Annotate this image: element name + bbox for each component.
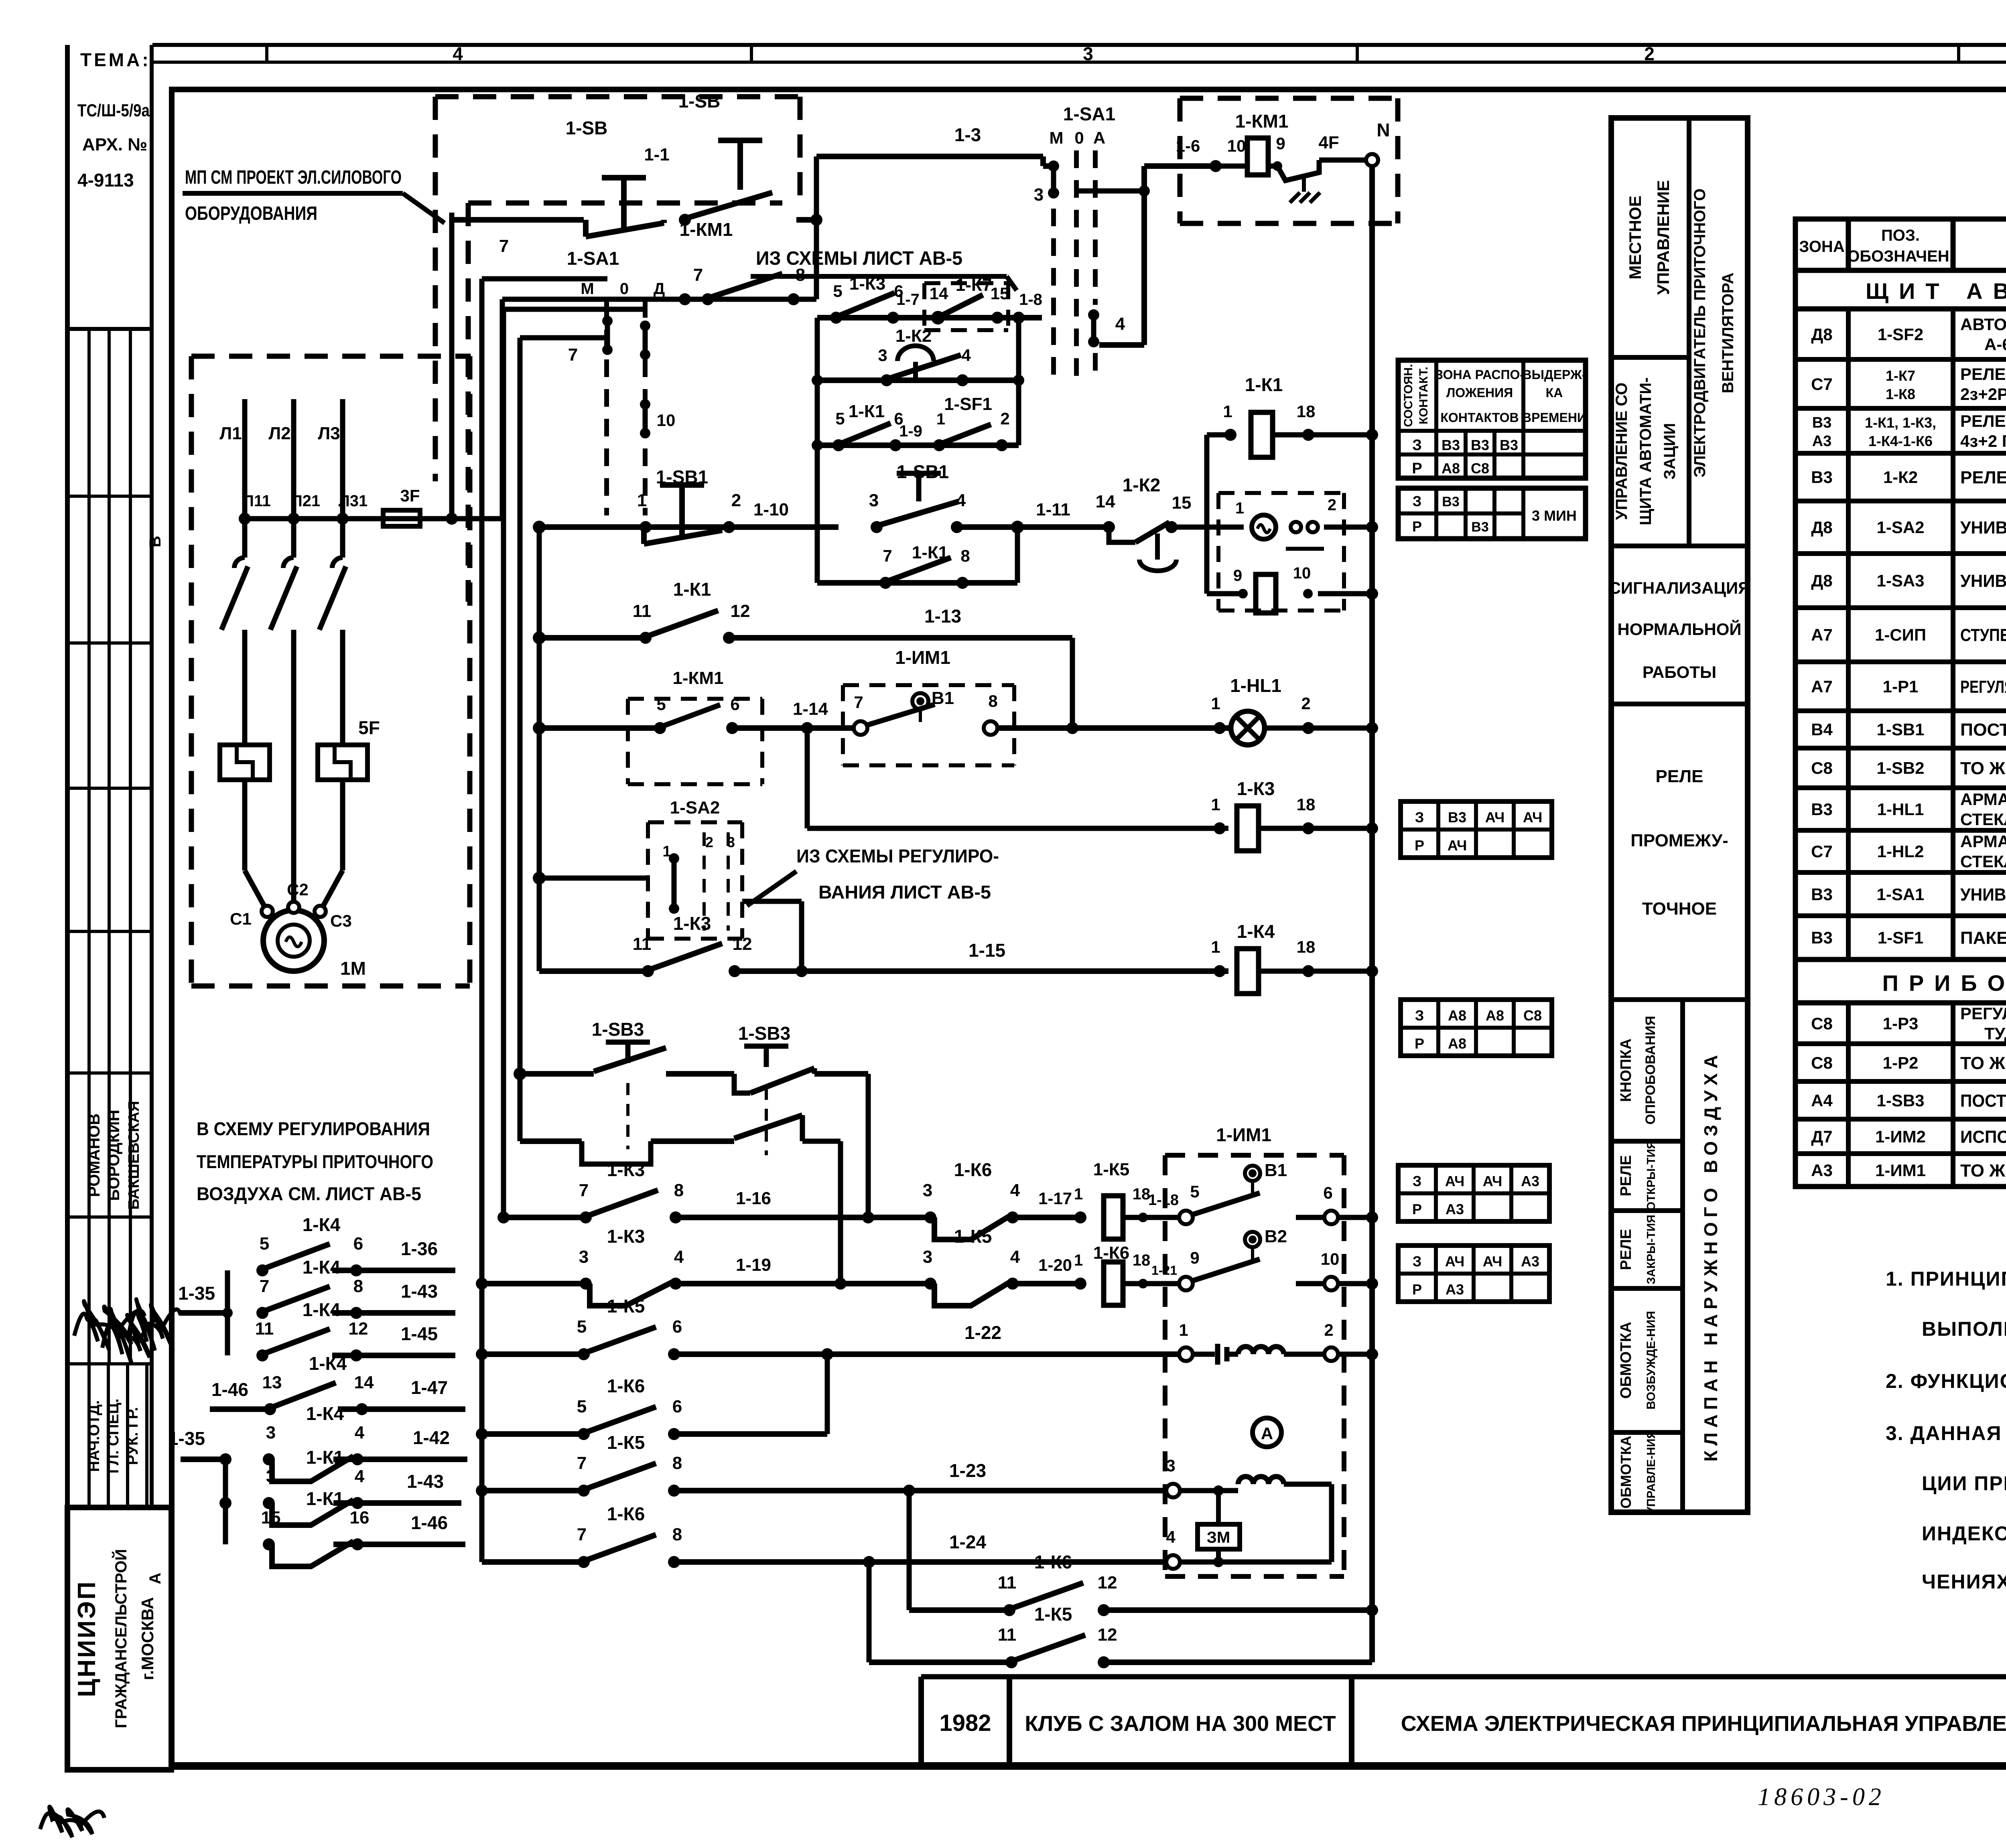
svg-text:7: 7 — [577, 1453, 587, 1473]
svg-text:Р: Р — [1412, 1281, 1422, 1298]
svg-text:АРМАТУРА СИГНАЛЬНОЙ ЛАМПЫ С КР: АРМАТУРА СИГНАЛЬНОЙ ЛАМПЫ С КРАСНЫМ — [1960, 832, 2006, 851]
svg-text:1-SА2: 1-SА2 — [1876, 518, 1924, 537]
svg-text:В3: В3 — [1442, 494, 1459, 509]
svg-text:Р: Р — [1412, 460, 1422, 477]
svg-text:12: 12 — [1098, 1573, 1117, 1592]
svg-text:10: 10 — [1227, 136, 1246, 155]
svg-text:ИЗ СХЕМЫ ЛИСТ АВ-5: ИЗ СХЕМЫ ЛИСТ АВ-5 — [756, 248, 962, 269]
svg-text:1: 1 — [1223, 402, 1232, 421]
svg-text:ВОЗДУХА СМ. ЛИСТ АВ-5: ВОЗДУХА СМ. ЛИСТ АВ-5 — [197, 1183, 421, 1204]
svg-text:КНОПКА: КНОПКА — [1618, 1039, 1634, 1102]
svg-text:З: З — [1413, 1253, 1422, 1270]
svg-text:1-SВ: 1-SВ — [566, 118, 608, 138]
svg-text:С7: С7 — [1811, 842, 1833, 861]
svg-text:11: 11 — [998, 1625, 1017, 1645]
svg-text:АЧ: АЧ — [1448, 837, 1467, 854]
svg-text:1-16: 1-16 — [736, 1189, 771, 1208]
svg-text:КЛУБ С ЗАЛОМ НА 300 МЕСТ: КЛУБ С ЗАЛОМ НА 300 МЕСТ — [1025, 1712, 1336, 1736]
svg-text:1-К7: 1-К7 — [1886, 367, 1915, 384]
svg-text:1982: 1982 — [939, 1710, 991, 1736]
svg-text:1-КМ1: 1-КМ1 — [680, 219, 733, 240]
svg-text:М: М — [581, 280, 594, 298]
svg-text:1. ПРИНЦИПИАЛЬНАЯ ЭЛЕКТРИЧЕСК: 1. ПРИНЦИПИАЛЬНАЯ ЭЛЕКТРИЧЕСКАЯ СХЕМА — [1886, 1268, 2006, 1290]
svg-text:12: 12 — [1098, 1625, 1117, 1645]
svg-text:ОБОЗНАЧЕН.: ОБОЗНАЧЕН. — [1847, 247, 1954, 265]
svg-text:9: 9 — [1190, 1248, 1199, 1267]
svg-text:4: 4 — [961, 346, 971, 365]
svg-text:1-SF2: 1-SF2 — [1878, 325, 1923, 344]
svg-text:3: 3 — [579, 1247, 589, 1267]
svg-text:1: 1 — [1211, 937, 1220, 956]
svg-text:В2: В2 — [1265, 1227, 1287, 1246]
svg-text:В3: В3 — [1812, 414, 1832, 431]
svg-text:10: 10 — [1321, 1250, 1340, 1268]
svg-text:А7: А7 — [1811, 625, 1833, 644]
svg-text:АЧ: АЧ — [1485, 809, 1505, 826]
svg-text:В3: В3 — [1811, 885, 1833, 904]
svg-text:1-42: 1-42 — [413, 1427, 450, 1448]
svg-text:Р: Р — [1412, 518, 1422, 535]
svg-text:1-К1: 1-К1 — [912, 543, 948, 562]
svg-text:3: 3 — [727, 834, 735, 850]
svg-text:СИГНАЛИЗАЦИЯ: СИГНАЛИЗАЦИЯ — [1609, 578, 1750, 597]
svg-text:ЗАЦИИ: ЗАЦИИ — [1661, 423, 1679, 480]
svg-text:1-24: 1-24 — [949, 1532, 986, 1552]
svg-text:18603-02: 18603-02 — [1758, 1783, 1885, 1811]
svg-text:8: 8 — [960, 546, 970, 565]
svg-text:Л31: Л31 — [339, 492, 368, 510]
svg-text:Д8: Д8 — [1811, 325, 1832, 344]
svg-text:18: 18 — [1297, 402, 1316, 421]
svg-text:1-SF1: 1-SF1 — [1878, 928, 1923, 947]
svg-text:РЕЛЕ ВРЕМЕНИ ВС-10-33: РЕЛЕ ВРЕМЕНИ ВС-10-33 — [1960, 468, 2006, 487]
svg-text:1-К1: 1-К1 — [673, 579, 711, 600]
svg-text:1-SА1: 1-SА1 — [1876, 885, 1924, 904]
svg-text:ИЗ СХЕМЫ РЕГУЛИРО-: ИЗ СХЕМЫ РЕГУЛИРО- — [796, 846, 999, 866]
svg-text:1-Р2: 1-Р2 — [1883, 1053, 1919, 1072]
svg-text:14: 14 — [930, 284, 948, 303]
svg-text:6: 6 — [672, 1397, 682, 1416]
svg-text:1-SВ1: 1-SВ1 — [897, 461, 949, 482]
svg-text:ТУДЭ-4 0-250°С: ТУДЭ-4 0-250°С — [1984, 1024, 2006, 1043]
svg-text:1-НL1: 1-НL1 — [1230, 675, 1281, 696]
svg-text:4: 4 — [1166, 1527, 1176, 1546]
svg-text:г.МОСКВА: г.МОСКВА — [138, 1597, 157, 1680]
svg-text:ЩИТА АВТОМАТИ-: ЩИТА АВТОМАТИ- — [1637, 377, 1655, 525]
svg-text:В3: В3 — [1471, 437, 1489, 453]
svg-text:РЕЛЕ ПРОМЕЖУТОЧНОЕ ~220 В: РЕЛЕ ПРОМЕЖУТОЧНОЕ ~220 В — [1960, 412, 2006, 430]
svg-text:2: 2 — [1324, 1321, 1333, 1339]
svg-text:1-К4: 1-К4 — [303, 1299, 341, 1320]
svg-text:Д8: Д8 — [1811, 518, 1832, 537]
svg-text:АВТОМАТИЧЕСКИЙ ВЫКЛЮЧАТЕЛЬ: АВТОМАТИЧЕСКИЙ ВЫКЛЮЧАТЕЛЬ — [1960, 314, 2006, 334]
svg-text:1-47: 1-47 — [411, 1377, 448, 1398]
svg-text:11: 11 — [998, 1573, 1017, 1592]
svg-text:7: 7 — [568, 345, 578, 365]
svg-text:Л21: Л21 — [291, 492, 321, 510]
svg-text:4: 4 — [355, 1423, 365, 1442]
svg-text:ПРОМЕЖУ-: ПРОМЕЖУ- — [1630, 831, 1728, 850]
svg-text:1-К4-1-К6: 1-К4-1-К6 — [1868, 433, 1933, 449]
svg-text:1-11: 1-11 — [1036, 500, 1070, 519]
svg-text:7: 7 — [883, 546, 892, 565]
svg-text:С8: С8 — [1523, 1007, 1542, 1024]
svg-text:1-К6: 1-К6 — [607, 1375, 645, 1396]
svg-text:ИНДЕКСА В МАРКИРОВКЕ ПРОВОД: ИНДЕКСА В МАРКИРОВКЕ ПРОВОДОВ И В ОБОЗНА… — [1922, 1522, 2006, 1545]
svg-text:2: 2 — [1328, 496, 1336, 514]
svg-text:А4: А4 — [1811, 1091, 1833, 1110]
svg-text:С3: С3 — [330, 911, 352, 930]
svg-text:1-К6: 1-К6 — [954, 1159, 992, 1180]
svg-text:8: 8 — [672, 1453, 682, 1473]
svg-text:1: 1 — [1074, 1252, 1083, 1269]
svg-text:2з+2Р КОНТАКТА ПЭ-21-8УЗ: 2з+2Р КОНТАКТА ПЭ-21-8УЗ — [1960, 385, 2006, 404]
svg-text:1-К1, 1-К3,: 1-К1, 1-К3, — [1865, 414, 1936, 431]
svg-text:ОБМОТКА: ОБМОТКА — [1618, 1436, 1634, 1509]
svg-text:ВЕНТИЛЯТОРА: ВЕНТИЛЯТОРА — [1719, 272, 1737, 393]
svg-text:В3: В3 — [1811, 800, 1833, 819]
svg-text:3: 3 — [266, 1423, 276, 1442]
svg-text:8: 8 — [353, 1276, 363, 1296]
svg-text:1-ИМ1: 1-ИМ1 — [895, 647, 950, 668]
svg-text:3: 3 — [878, 346, 887, 365]
svg-text:СХЕМА ЭЛЕКТРИЧЕСКАЯ ПРИНЦИПИА: СХЕМА ЭЛЕКТРИЧЕСКАЯ ПРИНЦИПИАЛЬНАЯ УПРАВ… — [1401, 1712, 2006, 1736]
svg-text:3: 3 — [1083, 43, 1093, 64]
svg-text:5: 5 — [577, 1317, 587, 1337]
svg-text:АЧ: АЧ — [1483, 1173, 1502, 1189]
svg-text:УПРАВЛЕНИЕ: УПРАВЛЕНИЕ — [1654, 180, 1673, 295]
svg-text:1-46: 1-46 — [411, 1512, 448, 1533]
svg-text:1-ИМ1: 1-ИМ1 — [1216, 1124, 1271, 1145]
svg-text:Л1: Л1 — [219, 424, 242, 443]
svg-text:5: 5 — [656, 695, 666, 714]
svg-text:5: 5 — [577, 1397, 587, 1416]
svg-text:13: 13 — [262, 1373, 282, 1392]
svg-text:1-15: 1-15 — [968, 940, 1005, 961]
svg-text:МП СМ ПРОЕКТ ЭЛ.СИЛОВОГО: МП СМ ПРОЕКТ ЭЛ.СИЛОВОГО — [185, 167, 402, 188]
svg-text:7: 7 — [854, 693, 863, 712]
svg-text:ТЕМА:: ТЕМА: — [80, 49, 151, 70]
svg-text:18: 18 — [1133, 1185, 1151, 1203]
svg-text:1: 1 — [1211, 795, 1220, 814]
svg-text:ВРЕМЕНИ: ВРЕМЕНИ — [1522, 410, 1586, 425]
svg-text:1-К4: 1-К4 — [303, 1257, 341, 1278]
svg-text:5: 5 — [260, 1234, 269, 1254]
svg-text:1-СИП: 1-СИП — [1875, 625, 1926, 644]
svg-text:1-К4: 1-К4 — [1237, 921, 1275, 942]
svg-text:А7: А7 — [1811, 677, 1833, 696]
svg-text:ЦНИИЭП: ЦНИИЭП — [73, 1580, 101, 1697]
svg-text:А3: А3 — [1446, 1201, 1464, 1217]
svg-text:УНИВЕРСАЛЬНЫЙ ПЕРЕКЛЮЧАТЕЛЬ: УНИВЕРСАЛЬНЫЙ ПЕРЕКЛЮЧАТЕЛЬ УП 5313 / С3… — [1960, 884, 2006, 905]
svg-text:6: 6 — [672, 1317, 682, 1337]
svg-text:1-9: 1-9 — [899, 422, 922, 440]
svg-text:РЕГУЛЯТОР ТЕМПЕРАТУРЫ ПОЛУПРОВ: РЕГУЛЯТОР ТЕМПЕРАТУРЫ ПОЛУПРОВОДНИКОВЫЙ … — [1960, 676, 2006, 697]
svg-text:ГЛ. СПЕЦ.: ГЛ. СПЕЦ. — [105, 1399, 122, 1474]
svg-text:В3: В3 — [1448, 809, 1466, 826]
svg-text:ЗОНА: ЗОНА — [1799, 238, 1844, 256]
svg-text:1-43: 1-43 — [401, 1281, 438, 1302]
svg-text:УНИВЕРСАЛЬНЫЙ ПЕРЕКЛЮЧАТЕЛЬ: УНИВЕРСАЛЬНЫЙ ПЕРЕКЛЮЧАТЕЛЬ УП5311-С225 — [1960, 517, 2006, 538]
svg-text:С8: С8 — [1811, 1053, 1833, 1072]
svg-text:3F: 3F — [400, 486, 420, 505]
svg-text:РОМАНОВ: РОМАНОВ — [85, 1114, 103, 1197]
svg-text:ГРАЖДАНСЕЛЬСТРОЙ: ГРАЖДАНСЕЛЬСТРОЙ — [112, 1549, 130, 1728]
svg-text:Л2: Л2 — [268, 424, 290, 443]
svg-text:НАЧ.ОТД.: НАЧ.ОТД. — [86, 1400, 103, 1472]
svg-text:ЭЛЕКТРОДВИГАТЕЛЬ ПРИТОЧНОГО: ЭЛЕКТРОДВИГАТЕЛЬ ПРИТОЧНОГО — [1691, 189, 1709, 478]
svg-text:1-К6: 1-К6 — [1034, 1552, 1072, 1572]
svg-text:В3: В3 — [1442, 437, 1460, 453]
svg-text:6: 6 — [353, 1234, 363, 1254]
svg-text:1-К3: 1-К3 — [607, 1159, 645, 1180]
svg-text:1-К4: 1-К4 — [306, 1403, 344, 1424]
svg-text:1-К2: 1-К2 — [1883, 468, 1918, 487]
svg-text:1-К5: 1-К5 — [1093, 1160, 1129, 1179]
svg-text:1-3: 1-3 — [954, 124, 981, 145]
svg-text:В СХЕМУ РЕГУЛИРОВАНИЯ: В СХЕМУ РЕГУЛИРОВАНИЯ — [197, 1118, 430, 1139]
svg-text:1-20: 1-20 — [1038, 1256, 1072, 1274]
svg-text:Р: Р — [1412, 1201, 1422, 1217]
svg-text:1-К1: 1-К1 — [306, 1447, 344, 1468]
svg-text:НОРМАЛЬНОЙ: НОРМАЛЬНОЙ — [1617, 619, 1741, 639]
svg-text:В: В — [146, 536, 164, 548]
svg-text:2. ФУНКЦИОНАЛЬНУЮ СХЕМУ СМ.: 2. ФУНКЦИОНАЛЬНУЮ СХЕМУ СМ. ЛИСТ АВ-3. — [1886, 1370, 2006, 1392]
svg-text:А: А — [146, 1573, 164, 1584]
svg-text:1-Р3: 1-Р3 — [1883, 1014, 1919, 1033]
svg-text:8: 8 — [674, 1181, 684, 1200]
svg-text:18: 18 — [1297, 795, 1316, 814]
svg-text:1-10: 1-10 — [753, 500, 789, 519]
svg-text:СТЕКЛОМ АС-220 ~220 В: СТЕКЛОМ АС-220 ~220 В — [1960, 852, 2006, 871]
svg-text:1: 1 — [1179, 1321, 1188, 1339]
svg-text:0: 0 — [1074, 128, 1084, 147]
svg-text:ТО ЖЕ, ПКЕ-112-1УЗ ТУ16.526.: ТО ЖЕ, ПКЕ-112-1УЗ ТУ16.526. 216-71 — [1960, 759, 2006, 778]
svg-text:ЗАКРЫ-ТИЯ: ЗАКРЫ-ТИЯ — [1645, 1215, 1658, 1284]
svg-text:4: 4 — [1010, 1247, 1020, 1267]
svg-text:3: 3 — [1166, 1456, 1175, 1475]
svg-text:1-К8: 1-К8 — [1886, 386, 1915, 402]
svg-text:В3: В3 — [1811, 468, 1833, 487]
svg-text:4: 4 — [1010, 1181, 1020, 1200]
svg-text:А3: А3 — [1812, 433, 1832, 450]
svg-text:8: 8 — [988, 692, 997, 710]
svg-text:11: 11 — [633, 934, 652, 954]
svg-text:4з+2 ПЕР. КОНТАКТА ПЭ-21-4УЗ: 4з+2 ПЕР. КОНТАКТА ПЭ-21-4УЗ — [1960, 432, 2006, 450]
svg-text:1-К5: 1-К5 — [1034, 1604, 1072, 1625]
svg-text:5: 5 — [1190, 1182, 1199, 1201]
svg-text:А: А — [1261, 1424, 1273, 1443]
svg-text:1-К4: 1-К4 — [309, 1353, 347, 1374]
svg-text:14: 14 — [1096, 492, 1115, 511]
svg-text:АЧ: АЧ — [1445, 1173, 1465, 1189]
svg-text:18: 18 — [1297, 937, 1316, 956]
svg-text:7: 7 — [577, 1525, 587, 1544]
svg-text:ЩИТ АВТОМАТИЗАЦИИ: ЩИТ АВТОМАТИЗАЦИИ — [1866, 278, 2006, 304]
svg-text:ОБОРУДОВАНИЯ: ОБОРУДОВАНИЯ — [185, 203, 317, 224]
svg-text:1-К3: 1-К3 — [1237, 778, 1275, 799]
svg-text:1-К5: 1-К5 — [607, 1296, 645, 1317]
svg-text:МЕСТНОЕ: МЕСТНОЕ — [1626, 196, 1645, 280]
svg-text:А3: А3 — [1521, 1173, 1539, 1189]
svg-text:РУК. ГР.: РУК. ГР. — [124, 1407, 141, 1465]
svg-text:1-НL1: 1-НL1 — [1877, 800, 1924, 819]
svg-text:1-19: 1-19 — [736, 1255, 771, 1275]
svg-text:ЦИИ ПРИТОЧНОЙ СИСТЕМЫ П2 С: ЦИИ ПРИТОЧНОЙ СИСТЕМЫ П2 С ЗАМЕНОЙ — [1922, 1472, 2006, 1495]
svg-text:4: 4 — [355, 1467, 365, 1486]
svg-text:А8: А8 — [1448, 1007, 1466, 1024]
svg-text:Р: Р — [1415, 1035, 1424, 1052]
svg-text:15: 15 — [991, 284, 1009, 303]
svg-text:ОБМОТКА: ОБМОТКА — [1618, 1322, 1634, 1399]
svg-text:З: З — [1415, 1007, 1424, 1024]
svg-text:1-К7: 1-К7 — [956, 275, 992, 295]
svg-text:БАКШЕВСКАЯ: БАКШЕВСКАЯ — [126, 1101, 142, 1209]
svg-text:С8: С8 — [1471, 460, 1489, 477]
svg-text:З: З — [1412, 437, 1422, 454]
svg-text:1-SВ1: 1-SВ1 — [1876, 720, 1924, 739]
svg-text:А8: А8 — [1448, 1035, 1466, 1052]
svg-text:1-45: 1-45 — [401, 1323, 438, 1344]
svg-text:7: 7 — [693, 265, 703, 285]
svg-text:ПОСТ УПРАВЛЕНИЯ ПКЕ-112-293: ПОСТ УПРАВЛЕНИЯ ПКЕ-112-293 ТУ16.526.216… — [1960, 720, 2006, 740]
svg-text:1-SА1: 1-SА1 — [567, 248, 619, 269]
svg-text:1-17: 1-17 — [1038, 1189, 1072, 1208]
svg-text:КОНТАКТ.: КОНТАКТ. — [1417, 367, 1430, 424]
svg-text:В4: В4 — [1811, 720, 1833, 739]
svg-text:С1: С1 — [230, 909, 252, 928]
svg-text:1: 1 — [1074, 1185, 1083, 1203]
svg-text:N: N — [1377, 120, 1390, 140]
svg-text:ВЫДЕРЖ-: ВЫДЕРЖ- — [1522, 367, 1586, 382]
svg-text:ЧЕНИЯХ ПРИБОРОВ, СОГЛАСНО НО: ЧЕНИЯХ ПРИБОРОВ, СОГЛАСНО НОМЕРУ СИСТЕМЫ… — [1922, 1570, 2006, 1593]
svg-text:А8: А8 — [1486, 1007, 1504, 1024]
svg-text:РЕГУЛЯТОР ТЕМПЕРАТУРЫ ДИЛАТОМ: РЕГУЛЯТОР ТЕМПЕРАТУРЫ ДИЛАТОМЕТРИЧЕСКИЙ — [1960, 1004, 2006, 1023]
svg-text:3: 3 — [869, 491, 879, 510]
svg-text:1-35: 1-35 — [168, 1428, 205, 1449]
svg-text:1-23: 1-23 — [949, 1460, 986, 1481]
svg-text:ВЫПОЛНЕНА НА 2ˣ ЛИСТАХ: АВ-4: ВЫПОЛНЕНА НА 2ˣ ЛИСТАХ: АВ-4, АВ-5. — [1922, 1318, 2006, 1340]
svg-text:1-8: 1-8 — [1019, 291, 1042, 308]
svg-text:1-35: 1-35 — [178, 1283, 215, 1304]
svg-text:АЧ: АЧ — [1445, 1253, 1465, 1270]
svg-text:А-63М ~220 В Jр= 1,6 А: А-63М ~220 В Jр= 1,6 А — [1984, 335, 2006, 354]
svg-text:1-К3: 1-К3 — [607, 1226, 645, 1247]
svg-text:С8: С8 — [1811, 759, 1833, 777]
svg-text:1-К3: 1-К3 — [673, 913, 711, 934]
svg-text:2: 2 — [1644, 43, 1655, 64]
svg-text:РЕЛЕ: РЕЛЕ — [1618, 1229, 1634, 1270]
svg-text:4: 4 — [674, 1247, 684, 1267]
svg-text:1-SВ2: 1-SВ2 — [1876, 759, 1924, 777]
svg-text:1-22: 1-22 — [964, 1322, 1001, 1343]
svg-text:18: 18 — [1133, 1252, 1151, 1269]
svg-text:УПРАВЛЕНИЕ СО: УПРАВЛЕНИЕ СО — [1613, 383, 1630, 520]
svg-text:2: 2 — [1000, 409, 1009, 428]
svg-text:ОПРОБОВАНИЯ: ОПРОБОВАНИЯ — [1643, 1016, 1658, 1124]
svg-text:З: З — [1413, 1173, 1422, 1189]
svg-text:1-К2: 1-К2 — [895, 326, 932, 346]
svg-text:1-К6: 1-К6 — [607, 1503, 645, 1524]
svg-text:1-К5: 1-К5 — [954, 1226, 992, 1247]
svg-text:1: 1 — [1211, 694, 1220, 713]
svg-text:3: 3 — [266, 1467, 276, 1486]
svg-text:6: 6 — [730, 695, 739, 714]
svg-text:КА: КА — [1546, 385, 1563, 400]
svg-text:7: 7 — [260, 1276, 269, 1296]
svg-text:С2: С2 — [287, 880, 309, 899]
svg-text:С8: С8 — [1811, 1014, 1833, 1033]
svg-text:КОНТАКТОВ: КОНТАКТОВ — [1440, 410, 1519, 425]
svg-text:1-КМ1: 1-КМ1 — [672, 668, 723, 688]
svg-text:1-14: 1-14 — [793, 699, 828, 719]
svg-text:ТО ЖЕ, ТУДЭ-1 -30° - +40°С: ТО ЖЕ, ТУДЭ-1 -30° - +40°С — [1960, 1053, 2006, 1073]
svg-text:1-К1: 1-К1 — [849, 402, 885, 421]
svg-text:СОСТОЯН.: СОСТОЯН. — [1402, 364, 1415, 427]
svg-text:1-К2: 1-К2 — [1123, 475, 1161, 495]
svg-text:ПОСТ УПРАВЛЕНИЯ ДВУХШТИФТОВЫЙ: ПОСТ УПРАВЛЕНИЯ ДВУХШТИФТОВЫЙ ПКЕ-212-2У… — [1960, 1090, 2006, 1111]
svg-text:9: 9 — [1233, 567, 1242, 584]
svg-text:В3: В3 — [1811, 928, 1833, 947]
svg-text:СТЕКЛОМ АС-220 ~220 В: СТЕКЛОМ АС-220 ~220 В — [1960, 810, 2006, 829]
svg-text:1-SВ3: 1-SВ3 — [738, 1023, 790, 1044]
svg-text:ВОЗБУЖДЕ-НИЯ: ВОЗБУЖДЕ-НИЯ — [1645, 1311, 1658, 1410]
svg-text:З: З — [1415, 809, 1424, 826]
svg-text:1-43: 1-43 — [407, 1471, 444, 1492]
svg-text:2: 2 — [731, 491, 741, 510]
svg-text:1-К1: 1-К1 — [306, 1488, 344, 1509]
svg-text:1-SВ3: 1-SВ3 — [592, 1019, 644, 1040]
svg-text:З: З — [1413, 493, 1422, 509]
svg-text:1-1: 1-1 — [644, 145, 670, 164]
svg-text:1М: 1М — [340, 958, 366, 979]
svg-text:ЛОЖЕНИЯ: ЛОЖЕНИЯ — [1446, 385, 1513, 400]
svg-text:8: 8 — [672, 1525, 682, 1544]
svg-text:5: 5 — [835, 409, 845, 428]
svg-text:1-SВ: 1-SВ — [678, 91, 721, 112]
svg-text:4: 4 — [956, 491, 966, 510]
svg-text:А: А — [1093, 128, 1105, 147]
svg-text:УПРАВЛЕ-НИЯ: УПРАВЛЕ-НИЯ — [1645, 1430, 1658, 1514]
svg-text:3 МИН: 3 МИН — [1532, 507, 1577, 524]
svg-text:АРХ. №: АРХ. № — [82, 135, 147, 154]
svg-text:1-46: 1-46 — [211, 1379, 248, 1400]
svg-text:ОТКРЫ-ТИЯ: ОТКРЫ-ТИЯ — [1645, 1141, 1658, 1211]
svg-text:1-SВ3: 1-SВ3 — [1876, 1091, 1924, 1110]
svg-text:РАБОТЫ: РАБОТЫ — [1643, 663, 1716, 682]
svg-text:ПРИБОРЫ ПО МЕСТУ: ПРИБОРЫ ПО МЕСТУ — [1882, 970, 2006, 996]
svg-text:А3: А3 — [1521, 1253, 1539, 1270]
svg-text:7: 7 — [579, 1181, 589, 1200]
svg-text:СТУПЕНЧАТЫЙ ИМПУЛЬСНЫЙ ПРЕРЫВА: СТУПЕНЧАТЫЙ ИМПУЛЬСНЫЙ ПРЕРЫВАТЕЛЬ СИП-0… — [1960, 625, 2006, 645]
svg-text:ПОЗ.: ПОЗ. — [1881, 227, 1920, 244]
svg-text:УНИВЕРСАЛЬНЫЙ ПЕРЕКЛЮЧАТЕЛЬ: УНИВЕРСАЛЬНЫЙ ПЕРЕКЛЮЧАТЕЛЬ УП5311-А-225 — [1960, 570, 2006, 591]
svg-text:1-К5: 1-К5 — [607, 1432, 645, 1453]
svg-text:12: 12 — [349, 1319, 368, 1339]
svg-text:1-36: 1-36 — [401, 1238, 438, 1259]
svg-text:1-К1: 1-К1 — [1245, 374, 1283, 395]
svg-text:10: 10 — [1293, 564, 1311, 582]
svg-text:1-SВ1: 1-SВ1 — [656, 467, 708, 487]
svg-text:В3: В3 — [1500, 437, 1518, 453]
svg-text:12: 12 — [733, 934, 752, 954]
svg-text:1: 1 — [637, 491, 647, 510]
svg-text:3. ДАННАЯ СХЕМА ПРИМЕНИМА Д: 3. ДАННАЯ СХЕМА ПРИМЕНИМА ДЛЯ АВТОМАТИЗА… — [1886, 1422, 2006, 1444]
svg-text:2: 2 — [1301, 694, 1310, 713]
svg-text:2: 2 — [705, 834, 713, 850]
svg-text:Р: Р — [1415, 837, 1424, 854]
svg-text:1-6: 1-6 — [1176, 136, 1200, 155]
